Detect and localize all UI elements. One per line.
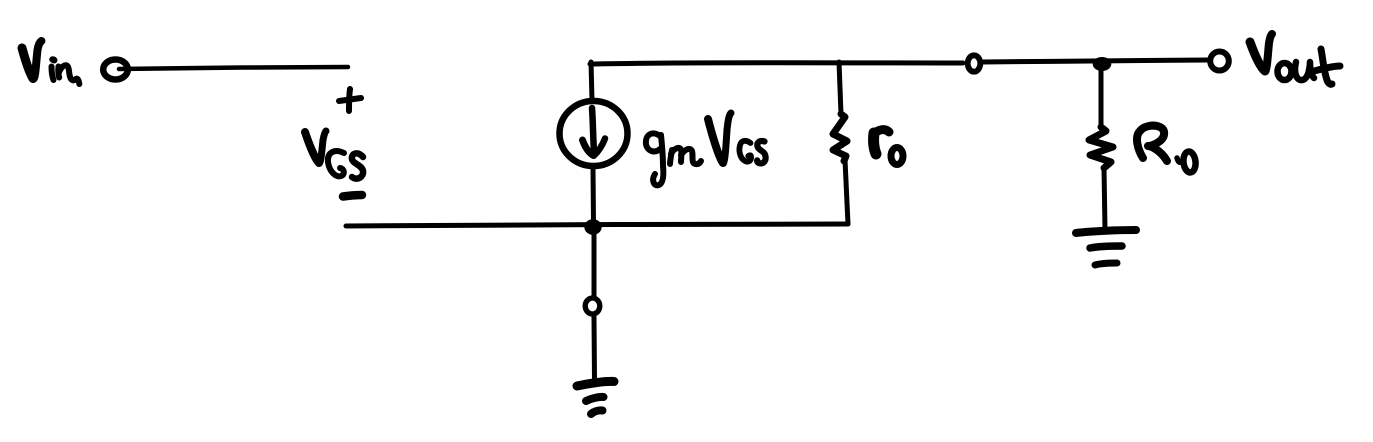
terminal Vin (open circle) — [103, 60, 128, 80]
label ro — [873, 130, 903, 165]
current source gmVGS — [560, 101, 628, 166]
label - (VGS minus) — [343, 195, 362, 197]
wire current source bottom lead — [591, 168, 597, 223]
terminal on source wire (open circle) — [585, 298, 600, 314]
ground (source) — [577, 381, 614, 414]
wire top rail right (to Vout) — [983, 60, 1208, 62]
wire to ground (source) — [592, 317, 598, 380]
label gmVGS — [646, 113, 766, 185]
label Vout — [1250, 34, 1340, 84]
wire current source top lead — [591, 62, 592, 100]
wire source node down — [592, 232, 597, 296]
ground (RD) — [1076, 230, 1136, 265]
label + (VGS plus) — [339, 89, 361, 111]
resistor ro — [833, 62, 848, 224]
label Vin — [22, 41, 79, 84]
terminal on top rail (open circle) — [968, 55, 981, 71]
label VGS — [305, 131, 363, 179]
wire bottom rail (source node) — [346, 224, 848, 226]
node drain/Vout junction (dot) — [1093, 57, 1112, 71]
label RD — [1137, 126, 1197, 173]
wire top rail left (drain to node) — [590, 63, 963, 64]
resistor RD — [1089, 70, 1113, 230]
node source junction (dot) — [584, 219, 601, 235]
wire Vin to gate — [119, 67, 348, 69]
terminal Vout (open circle) — [1210, 52, 1229, 71]
